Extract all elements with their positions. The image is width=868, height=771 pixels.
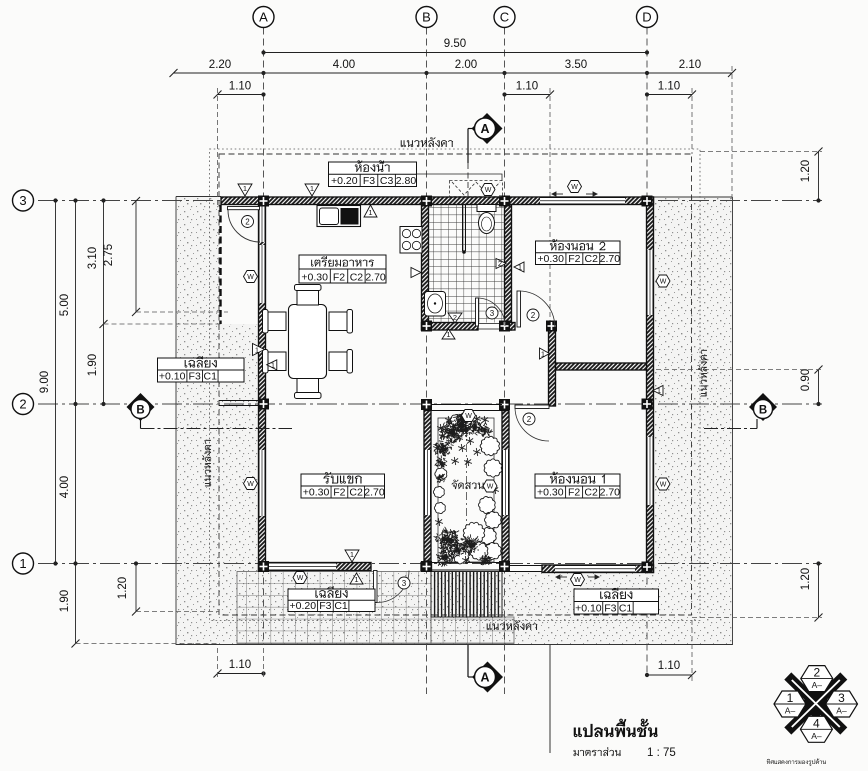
door D2 bedroom1 leaf — [515, 405, 549, 409]
roofline text bottom — [487, 620, 538, 630]
grid bubble 1 — [13, 553, 34, 574]
room label bedroom1 — [535, 472, 620, 499]
roof-overhang stipple left strip — [176, 197, 219, 645]
svg-text:B: B — [136, 405, 144, 417]
wall west exterior — [259, 205, 266, 571]
svg-text:9.00: 9.00 — [39, 371, 51, 393]
svg-text:1: 1 — [243, 184, 247, 193]
svg-text:F3: F3 — [363, 175, 375, 187]
wall living south — [259, 563, 372, 571]
svg-text:A: A — [259, 10, 268, 25]
toilet WC — [477, 205, 496, 234]
window W1 bedroom1 south — [555, 565, 635, 573]
grid bubble 2 — [13, 394, 34, 415]
svg-text:1: 1 — [350, 550, 354, 559]
section B right — [704, 393, 777, 429]
room label hongnam — [329, 160, 417, 187]
svg-text:+0.10: +0.10 — [159, 371, 186, 383]
window tag W1 bedroom1 south — [571, 574, 585, 586]
svg-text:W: W — [660, 482, 667, 489]
door opening west wall — [259, 206, 266, 242]
svg-text:0.90: 0.90 — [800, 369, 812, 391]
svg-text:3: 3 — [19, 193, 26, 208]
grid bubble B — [416, 7, 437, 28]
wall living south east stub — [421, 563, 432, 571]
window tag W1 bedroom2 north — [568, 181, 582, 193]
svg-text:W: W — [660, 279, 667, 286]
column B3 — [421, 196, 432, 207]
roofline text left (rotated) — [202, 440, 211, 487]
svg-text:+0.30: +0.30 — [537, 253, 564, 265]
room label porch-southeast — [574, 588, 659, 615]
marker tri-right kitchen — [411, 268, 421, 278]
dining table — [289, 305, 327, 379]
svg-text:1.10: 1.10 — [658, 81, 680, 93]
wall bathroom south west — [422, 323, 479, 331]
garden text — [451, 480, 483, 490]
grid line 3 — [38, 200, 822, 202]
svg-text:2.10: 2.10 — [679, 59, 701, 71]
door label circle 2 (porch) — [242, 216, 254, 228]
svg-text:+0.30: +0.30 — [303, 487, 330, 499]
window W2 living south — [266, 563, 336, 571]
window tag garden top — [462, 410, 476, 422]
svg-text:3: 3 — [838, 691, 845, 705]
west porch edge lines — [219, 205, 258, 406]
dimension 3.10/1.90 left — [87, 198, 108, 406]
svg-text:2.70: 2.70 — [364, 487, 385, 499]
grid bubble D — [637, 7, 658, 28]
site boundary — [176, 197, 733, 645]
window tag W1 east lower — [656, 478, 670, 490]
window tag W2 living south — [293, 572, 307, 584]
svg-text:A–: A– — [811, 731, 822, 741]
column B1 — [421, 561, 432, 572]
svg-text:C1: C1 — [204, 371, 218, 383]
svg-text:2: 2 — [19, 397, 26, 412]
svg-text:4.00: 4.00 — [333, 59, 355, 71]
roof-overhang stipple right strip — [653, 197, 733, 572]
svg-text:1.10: 1.10 — [658, 660, 680, 672]
grid bubble 3 — [13, 190, 34, 211]
porch tiles below stairs — [431, 617, 514, 644]
svg-text:5.00: 5.00 — [59, 294, 71, 316]
wall bathroom east — [505, 205, 512, 331]
svg-text:1: 1 — [255, 346, 259, 355]
svg-text:1: 1 — [310, 184, 314, 193]
svg-text:F2: F2 — [568, 253, 580, 265]
svg-text:F2: F2 — [333, 272, 345, 284]
svg-text:B: B — [759, 405, 767, 417]
svg-text:C3: C3 — [380, 175, 394, 187]
svg-text:W: W — [297, 575, 304, 582]
svg-text:3.50: 3.50 — [565, 59, 587, 71]
dimension 1.10 bottom-left — [214, 659, 266, 678]
svg-text:W: W — [574, 577, 581, 584]
svg-text:3.10: 3.10 — [87, 247, 99, 269]
svg-text:1.90: 1.90 — [59, 590, 71, 612]
window W1 bedroom2 east — [647, 250, 654, 315]
svg-text:1.10: 1.10 — [229, 659, 251, 671]
svg-text:2: 2 — [531, 311, 536, 320]
svg-text:+0.30: +0.30 — [537, 487, 564, 499]
kitchen side counter with burners — [400, 227, 422, 254]
room label triam — [299, 255, 386, 284]
marker delta kitchen — [364, 205, 377, 217]
svg-text:2: 2 — [498, 259, 502, 268]
door label circle 2 (bedroom1) — [523, 413, 535, 425]
column A1 — [258, 561, 269, 572]
svg-text:F3: F3 — [319, 600, 331, 612]
window tag W2 living west — [244, 478, 258, 490]
svg-text:2.70: 2.70 — [365, 272, 386, 284]
svg-text:2.00: 2.00 — [455, 59, 477, 71]
room label bedroom2 — [536, 239, 621, 265]
svg-text:2.70: 2.70 — [600, 253, 621, 265]
window garden east wall — [502, 450, 509, 515]
svg-text:1.20: 1.20 — [800, 568, 812, 590]
svg-text:2.20: 2.20 — [209, 59, 231, 71]
window garden west wall — [424, 450, 431, 515]
room label porch-south — [288, 586, 375, 612]
door D2 bedroom2 swing — [519, 291, 555, 327]
dimension 1.10 top-middle — [502, 81, 554, 99]
window tag W4 bathroom — [481, 184, 495, 196]
svg-text:2.75: 2.75 — [103, 244, 115, 266]
svg-text:1: 1 — [657, 386, 661, 395]
door D3 bathroom swing — [477, 298, 505, 326]
svg-text:F2: F2 — [568, 487, 580, 499]
svg-text:F3: F3 — [604, 603, 616, 615]
door D3 living leaf — [374, 571, 378, 603]
window W3 kitchen west — [259, 245, 266, 303]
svg-text:1.90: 1.90 — [87, 354, 99, 376]
marker tri-left bedroom2 — [514, 262, 524, 272]
column C1 — [499, 561, 510, 572]
svg-text:W: W — [247, 274, 254, 281]
svg-text:C2: C2 — [350, 272, 364, 284]
svg-text:A–: A– — [812, 680, 823, 690]
svg-text:F3: F3 — [189, 371, 201, 383]
svg-text:C2: C2 — [585, 253, 599, 265]
leader from bathroom label — [417, 174, 503, 181]
svg-text:B: B — [422, 10, 431, 25]
column C3 — [499, 196, 510, 207]
roofline text right (rotated) — [698, 350, 707, 397]
dimension extension dashes left — [76, 312, 229, 644]
door D2 bedroom1 swing — [515, 407, 549, 441]
marker delta porch — [350, 573, 363, 584]
svg-text:1: 1 — [368, 208, 372, 217]
svg-text:1: 1 — [271, 361, 275, 370]
window tag garden — [483, 480, 497, 492]
caption under compass — [767, 758, 826, 765]
svg-text:2.80: 2.80 — [396, 175, 417, 187]
door D3 living swing — [377, 571, 409, 603]
wall bedroom1 south — [542, 565, 654, 573]
svg-text:+0.20: +0.20 — [290, 600, 317, 612]
column A3 — [258, 196, 269, 207]
marker tri-right west-porch — [253, 344, 265, 356]
column corridor top — [546, 321, 557, 332]
dimension 1.20 right-bottom — [800, 561, 823, 621]
grid bubble C — [494, 7, 515, 28]
roof-overhang stipple bottom strip — [219, 572, 733, 645]
window tag W3 kitchen west — [244, 271, 258, 283]
dimension 1.10 top-right — [645, 81, 696, 99]
dimension 0.90 right — [800, 366, 823, 407]
door label circle 3 (bathroom) — [486, 307, 498, 319]
roof outline dotted — [210, 149, 701, 621]
svg-text:W: W — [247, 481, 254, 488]
svg-text:1.20: 1.20 — [800, 160, 812, 182]
svg-text:1.10: 1.10 — [516, 81, 538, 93]
door D2 west porch leaf — [228, 207, 260, 210]
bathroom door sill — [478, 324, 505, 330]
svg-text:C1: C1 — [334, 600, 348, 612]
dimension 1.20 left-bottom — [117, 561, 140, 615]
svg-text:1: 1 — [446, 330, 450, 339]
window W1 bedroom2 north — [540, 197, 625, 205]
garden shrubs — [433, 412, 502, 567]
door label circle 3 (living) — [398, 577, 410, 589]
door D2 bedroom2 leaf — [517, 291, 521, 327]
marker nabla living-south — [345, 550, 359, 562]
column D2 — [642, 399, 653, 410]
svg-text:+0.20: +0.20 — [331, 175, 358, 187]
grid line 2 — [38, 403, 822, 405]
garden inner border — [438, 418, 494, 562]
shower screen — [463, 205, 466, 252]
dimension extension stubs top — [218, 66, 733, 330]
svg-text:A–: A– — [836, 706, 847, 716]
svg-text:4: 4 — [813, 716, 820, 730]
column C2 — [499, 399, 510, 410]
grid line 1 — [38, 563, 822, 565]
svg-text:W: W — [487, 484, 494, 491]
title แปลนพื้นชั้น — [574, 719, 658, 737]
section A bottom — [468, 645, 503, 693]
garden center path line — [466, 412, 468, 562]
grid line A — [263, 28, 265, 646]
dimension 9.50 — [261, 38, 649, 55]
svg-text:+0.10: +0.10 — [575, 603, 602, 615]
dimension 1.10 bottom-right — [645, 660, 696, 679]
wall east exterior — [647, 197, 654, 573]
svg-text:A: A — [480, 671, 489, 685]
column bath SE — [499, 321, 510, 332]
wall garden east — [502, 411, 509, 562]
svg-text:C2: C2 — [349, 487, 363, 499]
column D1 — [642, 562, 653, 573]
wash basin — [425, 292, 446, 317]
svg-text:W: W — [485, 187, 492, 194]
svg-text:+0.30: +0.30 — [301, 272, 328, 284]
window W2 living west — [259, 450, 266, 516]
marker tri-left east-wall — [653, 386, 663, 396]
bathroom tile floor — [429, 205, 505, 323]
svg-text:1: 1 — [518, 263, 522, 272]
roofline text top — [401, 137, 453, 147]
svg-text:1: 1 — [354, 575, 358, 584]
dimension 1.20 right-top — [800, 148, 823, 203]
svg-text:C2: C2 — [584, 487, 598, 499]
marker tri-right corridor — [540, 348, 550, 359]
dimension 9.00 left — [39, 198, 58, 565]
svg-text:4.00: 4.00 — [59, 476, 71, 498]
svg-text:1.10: 1.10 — [229, 81, 251, 93]
svg-text:1: 1 — [541, 350, 545, 359]
porch edge connector — [509, 566, 542, 572]
wall top exterior — [221, 197, 654, 205]
grid bubble A — [253, 7, 274, 28]
svg-text:2: 2 — [527, 415, 532, 424]
compass / view-direction rose — [774, 666, 858, 743]
dimension 5.00/4.00/1.90 left — [59, 198, 80, 647]
svg-text:1: 1 — [787, 691, 794, 705]
svg-text:1: 1 — [19, 556, 26, 571]
window W1 bedroom1 east — [647, 437, 654, 505]
svg-text:1.20: 1.20 — [117, 577, 129, 599]
section A top — [468, 113, 503, 200]
dimension 2.75 left — [103, 197, 140, 316]
svg-text:9.50: 9.50 — [444, 38, 466, 50]
grid line B — [426, 28, 428, 695]
svg-text:2: 2 — [453, 313, 457, 322]
wall bathroom south east — [505, 323, 516, 331]
svg-text:A: A — [480, 122, 489, 136]
svg-text:3: 3 — [490, 309, 495, 318]
entrance stairs — [435, 572, 499, 618]
room label living — [301, 472, 385, 498]
door D3 bathroom leaf — [476, 298, 479, 326]
garden top edge — [431, 405, 502, 411]
window tag W1 east upper — [656, 275, 670, 287]
svg-text:W: W — [465, 413, 472, 420]
svg-text:F2: F2 — [333, 487, 345, 499]
dimension 1.10 top-left — [214, 81, 266, 99]
grid line C — [504, 28, 506, 695]
svg-text:2: 2 — [813, 666, 820, 680]
window swing arrows — [552, 192, 599, 579]
column D3 — [642, 196, 653, 207]
marker nabla bath — [448, 313, 462, 323]
svg-text:2.70: 2.70 — [600, 487, 621, 499]
wall corridor east — [549, 325, 556, 406]
door label circle 2 (bedroom2) — [527, 309, 539, 321]
scale text มาตราส่วน — [573, 747, 620, 756]
svg-text:1 : 75: 1 : 75 — [647, 747, 676, 759]
high window W4 dashed — [450, 181, 503, 197]
roof outline dashed — [219, 154, 692, 615]
dimension row 2.20/4.00/2.00/3.50/2.10 — [170, 59, 737, 77]
door D2 west porch swing — [228, 210, 260, 242]
marker nabla top-wall-1 — [238, 184, 252, 196]
dining chairs — [263, 285, 353, 399]
grid line D — [646, 28, 648, 676]
dimension extension dashes right — [656, 152, 822, 618]
svg-text:3: 3 — [402, 579, 407, 588]
porch tiles SW — [237, 572, 431, 644]
column B2 — [421, 399, 432, 410]
column A2 — [258, 399, 269, 410]
room label porch-west — [158, 356, 245, 382]
wall bathroom west — [422, 205, 429, 331]
wall between bedrooms — [556, 363, 647, 370]
garden bottom edge — [431, 563, 502, 571]
marker tri-left living — [267, 360, 277, 370]
svg-text:C: C — [500, 10, 509, 25]
wall garden west — [424, 411, 431, 562]
roof-overhang stipple left inner — [219, 324, 259, 572]
svg-text:C1: C1 — [619, 603, 633, 615]
title block divider line — [549, 645, 551, 753]
svg-text:A–: A– — [785, 706, 796, 716]
svg-text:D: D — [642, 10, 651, 25]
column bath SW — [421, 321, 432, 332]
dimension extension dashes bottom — [218, 620, 693, 681]
section B left — [127, 393, 293, 429]
marker delta bath — [442, 329, 455, 339]
kitchen counter with sink and stove — [317, 206, 361, 227]
svg-text:2: 2 — [245, 218, 250, 227]
svg-text:W: W — [571, 184, 578, 191]
marker nabla top-wall-2 — [305, 184, 319, 196]
marker tri-right bath-east — [496, 259, 506, 269]
